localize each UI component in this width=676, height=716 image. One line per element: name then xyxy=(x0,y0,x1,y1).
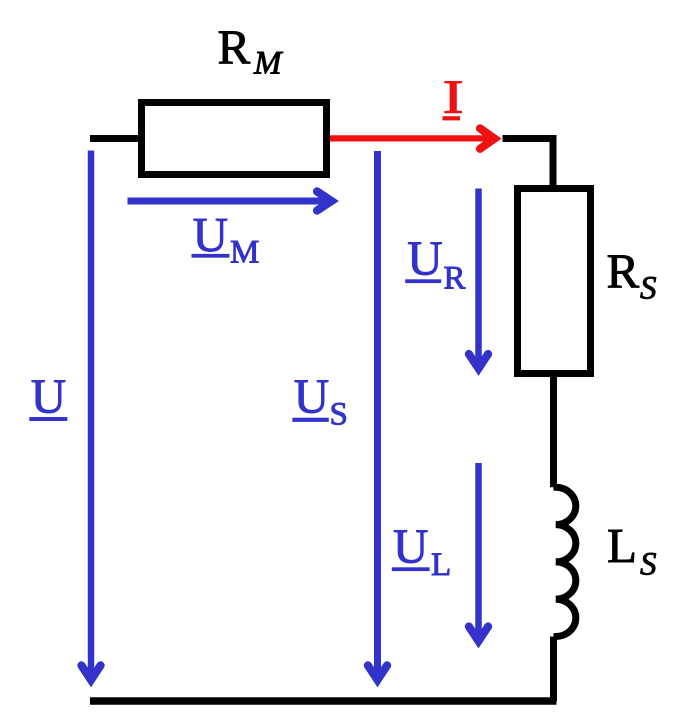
svg-text:R: R xyxy=(607,244,640,299)
label R_M xyxy=(218,19,284,81)
label U_L (blue, underlined) xyxy=(392,518,451,583)
label U (blue, underlined) xyxy=(29,369,67,424)
resistor R_M (box) xyxy=(142,103,327,175)
voltage arrow U (blue, left, downward) xyxy=(81,151,100,680)
svg-text:L: L xyxy=(431,547,451,583)
wire: R_S bottom to inductor xyxy=(550,373,557,487)
label U_M (blue, underlined) xyxy=(192,207,260,271)
svg-text:S: S xyxy=(640,546,657,582)
svg-text:U: U xyxy=(193,207,228,262)
voltage arrow U_R (blue, over R_S, downward) xyxy=(469,189,488,369)
voltage arrow U_M (blue, horizontal under R_M) xyxy=(128,191,332,210)
wire: top-left horizontal lead xyxy=(90,135,145,142)
svg-text:I: I xyxy=(443,71,464,124)
label I (red, underlined) xyxy=(443,71,464,124)
svg-text:U: U xyxy=(393,518,428,573)
svg-text:U: U xyxy=(294,368,329,423)
svg-text:U: U xyxy=(407,231,442,286)
wire: arrow tip to top-right corner, down to R_S xyxy=(503,139,554,193)
label U_R (blue, underlined) xyxy=(405,231,465,297)
inductor L_S (coil) xyxy=(554,487,576,636)
wire: inductor to bottom wire xyxy=(550,637,557,702)
resistor R_S (box) xyxy=(518,189,591,374)
voltage arrow U_L (blue, over L_S, downward) xyxy=(469,463,488,641)
svg-text:M: M xyxy=(253,45,283,81)
svg-text:U: U xyxy=(31,369,66,424)
svg-text:R: R xyxy=(444,261,466,297)
voltage arrow U_S (blue, middle, downward) xyxy=(368,151,387,680)
svg-text:M: M xyxy=(230,235,259,271)
wire: bottom horizontal xyxy=(90,697,557,705)
svg-text:S: S xyxy=(640,270,657,306)
label U_S (blue, underlined) xyxy=(292,368,347,432)
current arrow I (red) xyxy=(330,128,495,148)
label L_S xyxy=(607,518,657,582)
svg-text:L: L xyxy=(607,518,637,573)
svg-text:S: S xyxy=(330,397,348,433)
svg-text:R: R xyxy=(218,19,251,74)
label R_S xyxy=(607,244,657,307)
